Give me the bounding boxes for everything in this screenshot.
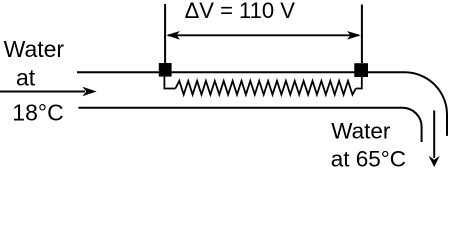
dimension tick left bbox=[164, 4, 166, 63]
wire left square to resistor bbox=[164, 77, 175, 89]
terminal node right (black square) bbox=[354, 63, 368, 77]
resistor heating element R bbox=[175, 81, 355, 95]
svg-text:at 65°C: at 65°C bbox=[331, 147, 406, 170]
svg-text:Water: Water bbox=[4, 36, 65, 62]
svg-text:ΔV = 110 V: ΔV = 110 V bbox=[185, 0, 296, 23]
outlet flow arrowhead bbox=[429, 156, 440, 167]
svg-text:18°C: 18°C bbox=[12, 99, 63, 125]
inlet flow arrowhead bbox=[82, 87, 96, 96]
dimension arrowhead left bbox=[166, 31, 180, 40]
wire right square to resistor bbox=[356, 77, 362, 89]
dimension tick right bbox=[361, 5, 363, 64]
outlet flow arrow shaft bbox=[433, 111, 435, 159]
pipe bottom wall bbox=[79, 108, 422, 142]
svg-text:at: at bbox=[16, 64, 36, 90]
pipe top wall bbox=[77, 72, 447, 136]
dimension arrowhead right bbox=[347, 31, 361, 40]
dimension arrow shaft bbox=[168, 34, 359, 36]
terminal node left (black square) bbox=[159, 63, 172, 77]
svg-text:Water: Water bbox=[331, 118, 391, 143]
inlet flow arrow shaft bbox=[0, 91, 85, 93]
